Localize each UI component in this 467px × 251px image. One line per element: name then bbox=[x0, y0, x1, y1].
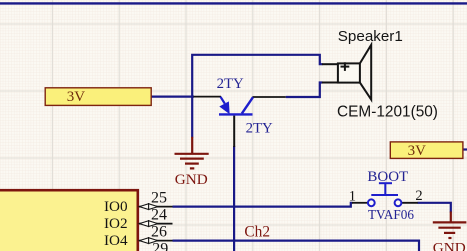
pins bbox=[322, 63, 338, 65]
wire pin25 to button bbox=[173, 203, 353, 207]
bridge bbox=[371, 194, 398, 196]
svg-text:IO4: IO4 bbox=[104, 232, 128, 249]
pushbutton SW (BOOT / TVAF06) bbox=[352, 183, 418, 206]
svg-text:2TY: 2TY bbox=[217, 76, 244, 92]
svg-text:2: 2 bbox=[415, 188, 422, 204]
port 3V right bbox=[390, 142, 463, 159]
contact 1 bbox=[368, 199, 375, 206]
power port GND left bbox=[175, 137, 209, 169]
svg-text:29: 29 bbox=[152, 241, 168, 251]
wire button2 to gnd bbox=[418, 203, 451, 213]
transistor Q (2TY) bbox=[194, 76, 286, 147]
svg-text:CEM-1201(50): CEM-1201(50) bbox=[337, 103, 438, 120]
wire speaker lower to collector bbox=[286, 83, 323, 98]
svg-text:25: 25 bbox=[151, 190, 167, 207]
horn bbox=[360, 45, 371, 100]
contact 2 bbox=[395, 199, 402, 206]
svg-text:3V: 3V bbox=[67, 89, 86, 105]
svg-text:26: 26 bbox=[151, 224, 167, 241]
svg-text:Ch2: Ch2 bbox=[244, 223, 270, 240]
base pin bbox=[233, 116, 235, 147]
svg-text:IO2: IO2 bbox=[104, 215, 128, 232]
svg-text:BOOT: BOOT bbox=[367, 169, 408, 185]
svg-text:24: 24 bbox=[151, 207, 167, 224]
svg-text:GND: GND bbox=[175, 171, 208, 188]
emitter pin bbox=[194, 96, 222, 98]
pin IO2 (24) bbox=[104, 207, 173, 233]
svg-text:Speaker1: Speaker1 bbox=[338, 28, 403, 45]
speaker LS (Speaker1) bbox=[322, 45, 371, 100]
pin IO4 (26) bbox=[104, 224, 173, 250]
wire base down bbox=[233, 146, 235, 251]
base bar bbox=[219, 113, 253, 115]
wire top horizontal net bbox=[192, 55, 322, 138]
collector stroke bbox=[242, 97, 253, 113]
pin2 bbox=[402, 202, 418, 204]
pin1 bbox=[352, 202, 368, 204]
wire top bus bbox=[0, 2, 467, 4]
svg-text:3V: 3V bbox=[408, 143, 427, 159]
port 3V left bbox=[45, 88, 151, 106]
collector pin bbox=[253, 96, 286, 98]
pin IO0 (25) bbox=[104, 190, 173, 216]
wire pin26 net bbox=[173, 241, 420, 251]
IC U? (partial) bbox=[0, 190, 138, 251]
wire 3V-right stub bbox=[463, 148, 467, 150]
power port GND right bbox=[433, 212, 467, 239]
svg-text:2TY: 2TY bbox=[246, 121, 273, 137]
svg-text:IO0: IO0 bbox=[104, 198, 128, 215]
emitter w/ arrow bbox=[221, 97, 225, 104]
svg-text:GND: GND bbox=[433, 240, 466, 251]
svg-text:TVAF06: TVAF06 bbox=[368, 207, 414, 222]
body box bbox=[338, 63, 360, 82]
plus sign bbox=[341, 66, 350, 68]
svg-text:1: 1 bbox=[349, 188, 356, 204]
wire 3V-left to junction bbox=[152, 95, 195, 97]
stem bbox=[384, 183, 386, 195]
